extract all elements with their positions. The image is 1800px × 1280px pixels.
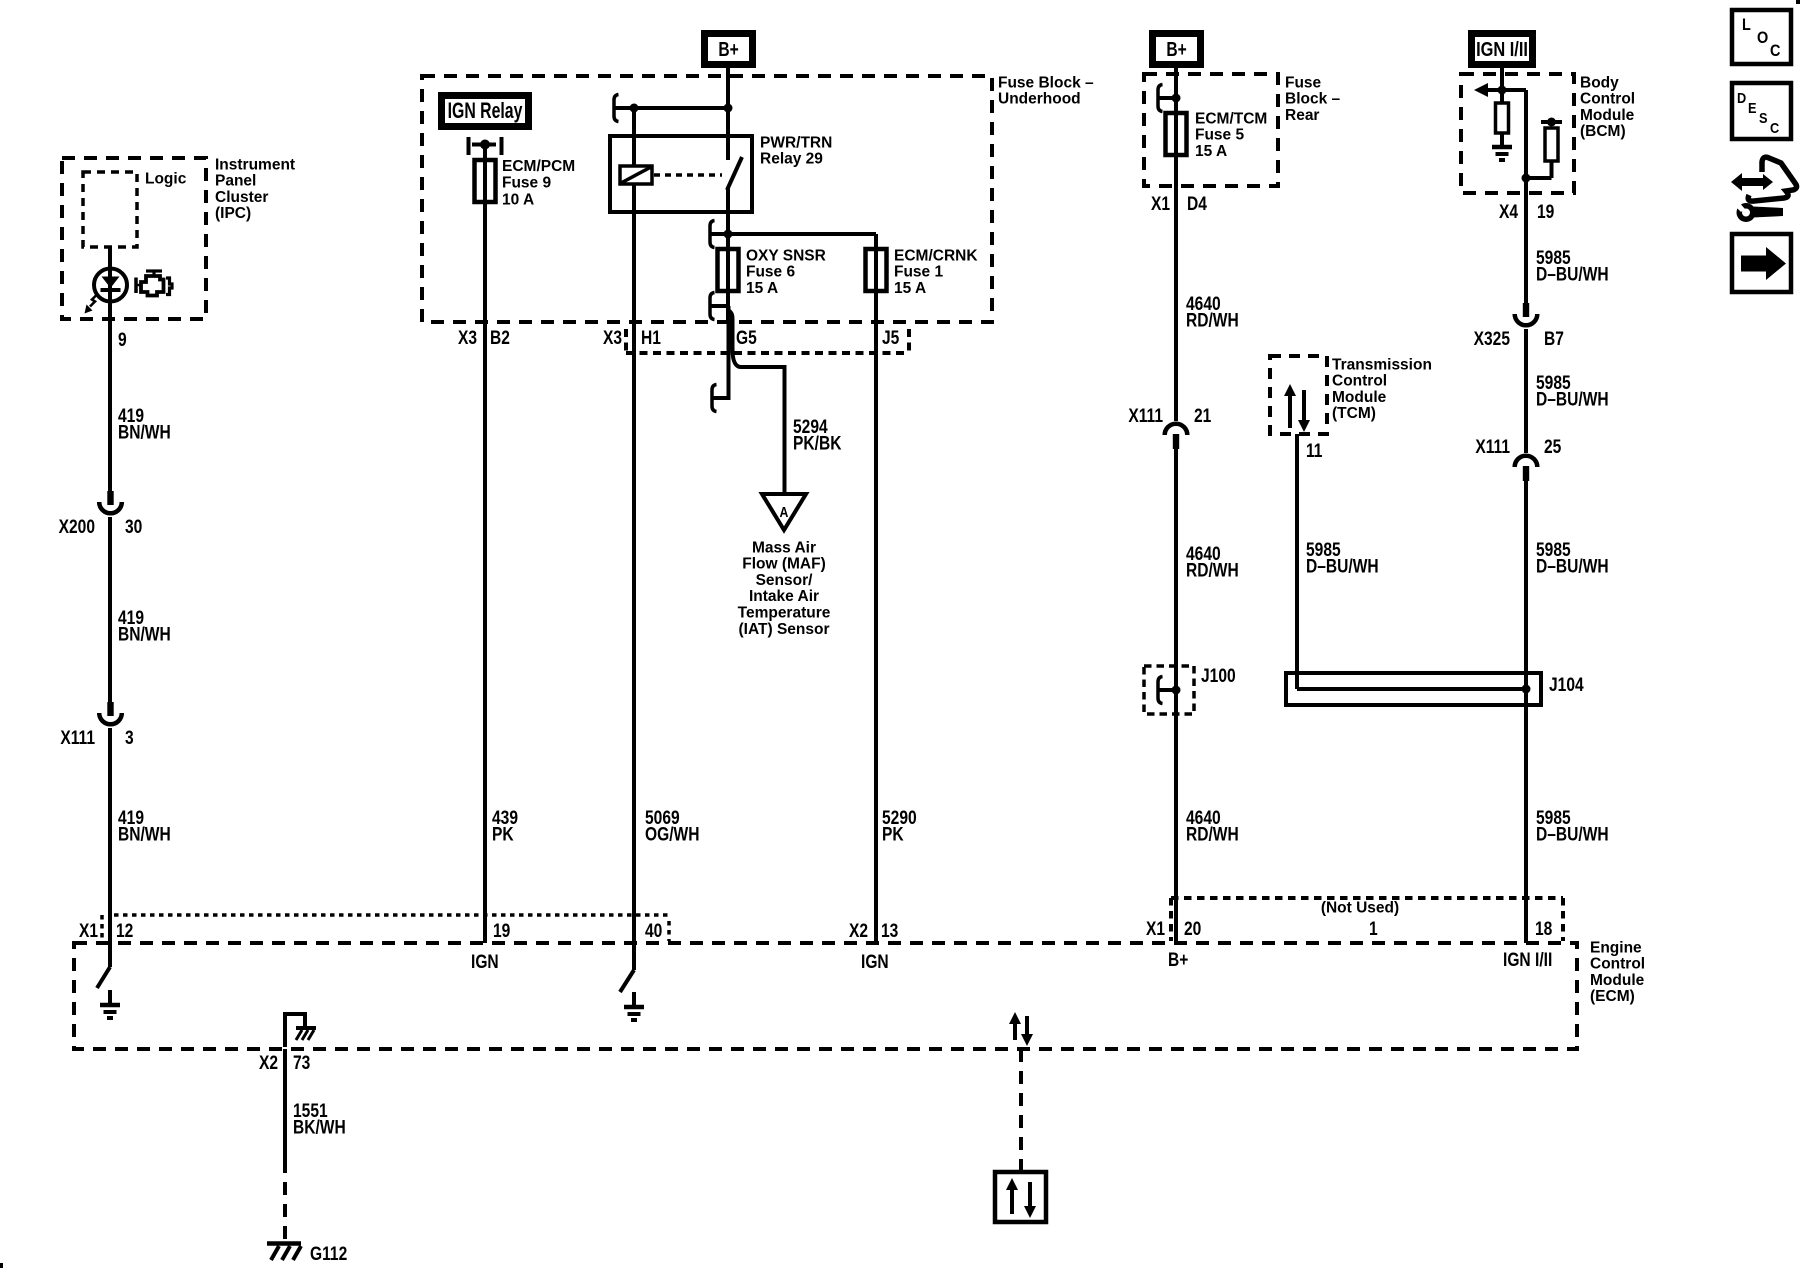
clip tap above fuse 6 — [710, 221, 715, 248]
BCM internal resistor 2 — [1545, 128, 1558, 161]
Fuse Block - Rear dashed box — [1144, 74, 1278, 186]
Transmission Control Module (TCM) dashed box — [1270, 356, 1327, 434]
dashed stub to data link box — [1019, 1049, 1023, 1172]
svg-text:Fuse 6: Fuse 6 — [746, 264, 795, 281]
relay PWR/TRN Relay 29 box — [610, 136, 752, 212]
svg-text:Mass Air: Mass Air — [752, 539, 816, 556]
power symbol B+ (rear) — [1153, 34, 1201, 65]
svg-text:D–BU/WH: D–BU/WH — [1536, 823, 1609, 845]
svg-text:B2: B2 — [490, 327, 510, 349]
svg-text:OG/WH: OG/WH — [645, 823, 699, 845]
svg-text:X2: X2 — [259, 1052, 278, 1074]
wire 5985 D-BU/WH to ECM pin 18 — [1524, 480, 1528, 943]
Body Control Module (BCM) dashed box — [1461, 74, 1574, 193]
wire 419 BN/WH to ECM pin 12 — [108, 728, 112, 967]
svg-text:18: 18 — [1535, 918, 1553, 940]
svg-text:D: D — [1737, 89, 1746, 106]
wire BCM internal vertical — [1524, 90, 1528, 193]
DESC icon box — [1732, 83, 1791, 139]
svg-text:(IAT) Sensor: (IAT) Sensor — [739, 621, 830, 638]
ground at pin 12 — [108, 990, 112, 1005]
svg-text:Sensor/: Sensor/ — [756, 572, 814, 589]
svg-text:BN/WH: BN/WH — [118, 421, 171, 443]
svg-text:PK: PK — [492, 823, 514, 845]
wire 5985 to X111 25 — [1524, 329, 1528, 453]
inline connector X200 pin 30 — [107, 491, 113, 505]
connector bracket X1 left — [100, 915, 104, 941]
junction BCM output — [1522, 174, 1531, 183]
Logic dashed box — [83, 172, 137, 247]
svg-text:IGN I/II: IGN I/II — [1476, 37, 1528, 60]
ECM switch to ground at pin 40 — [620, 970, 634, 992]
svg-text:Block –: Block – — [1285, 91, 1341, 108]
svg-text:(TCM): (TCM) — [1332, 405, 1376, 422]
wrench — [1737, 203, 1756, 222]
svg-text:Panel: Panel — [215, 173, 256, 190]
svg-text:H1: H1 — [641, 327, 661, 349]
svg-text:Cluster: Cluster — [215, 189, 268, 206]
svg-text:ECM/PCM: ECM/PCM — [502, 158, 575, 175]
junction BCM feed — [1498, 86, 1507, 95]
LED diode symbol — [102, 277, 120, 289]
indicator lamp circle (MIL LED) — [94, 269, 127, 302]
svg-text:Intake Air: Intake Air — [749, 588, 819, 605]
ECM data arrows — [1013, 1023, 1017, 1040]
svg-text:Module: Module — [1590, 972, 1645, 989]
fuse 9 holder bracket — [467, 137, 471, 155]
power symbol B+ (underhood) — [705, 34, 753, 65]
svg-text:Fuse Block –: Fuse Block – — [998, 74, 1094, 91]
junction fuse 6 feed — [724, 230, 733, 239]
svg-text:C: C — [1770, 42, 1780, 60]
svg-text:Fuse 9: Fuse 9 — [502, 175, 551, 192]
svg-text:IGN: IGN — [471, 951, 499, 973]
svg-text:BN/WH: BN/WH — [118, 623, 171, 645]
svg-text:X1: X1 — [1151, 193, 1170, 215]
wire fuse feed bus — [710, 232, 876, 236]
svg-text:Temperature: Temperature — [738, 605, 831, 622]
svg-text:Body: Body — [1580, 74, 1619, 91]
wire 5985 to X325 — [1524, 193, 1528, 304]
svg-text:25: 25 — [1544, 436, 1562, 458]
inline connector X111 pin 3 — [107, 702, 113, 716]
svg-text:PWR/TRN: PWR/TRN — [760, 134, 832, 151]
BCM internal resistor 1 — [1496, 103, 1509, 133]
wire dashed to G112 — [283, 1160, 287, 1242]
wire 419 BN/WH to X111 — [108, 517, 112, 703]
inline connector X111 pin 21 — [1165, 424, 1188, 435]
junction J104 — [1522, 685, 1531, 694]
svg-text:X111: X111 — [1475, 436, 1510, 458]
relay coil — [620, 166, 652, 184]
svg-text:B+: B+ — [1168, 949, 1188, 971]
splice J100 dotted box — [1144, 666, 1194, 714]
svg-text:15 A: 15 A — [746, 280, 778, 297]
IGN Relay label box — [442, 96, 529, 127]
svg-text:21: 21 — [1194, 405, 1212, 427]
svg-text:40: 40 — [645, 920, 662, 942]
svg-text:19: 19 — [1537, 201, 1555, 223]
svg-text:Transmission: Transmission — [1332, 356, 1432, 373]
svg-text:X1: X1 — [1146, 918, 1165, 940]
svg-text:Engine: Engine — [1590, 939, 1642, 956]
Fuse Block - Underhood dashed box — [422, 76, 992, 322]
svg-text:B+: B+ — [718, 38, 738, 60]
fuse ECM/CRNK Fuse 1 15A — [866, 249, 887, 291]
svg-text:Fuse: Fuse — [1285, 74, 1322, 91]
svg-text:X4: X4 — [1499, 201, 1518, 223]
connector bus dotted line X1 (left) — [114, 913, 671, 917]
svg-text:X200: X200 — [59, 516, 95, 538]
svg-text:Module: Module — [1580, 107, 1635, 124]
ground in BCM — [1500, 132, 1504, 147]
svg-text:(BCM): (BCM) — [1580, 123, 1626, 140]
wire B+ through fuse 5 to X111 21 — [1174, 68, 1178, 421]
svg-text:S: S — [1759, 109, 1768, 126]
wire 419 BN/WH from Logic to X200 — [108, 247, 112, 492]
wire 5290 PK to ECM pin 13 — [874, 234, 878, 943]
data link connector box — [995, 1172, 1046, 1222]
wire resistor to ground — [1500, 133, 1504, 147]
ECM internal chassis ground at pin 73 — [285, 1014, 305, 1047]
wire IGN I/II into BCM — [1500, 68, 1504, 103]
svg-text:OXY SNSR: OXY SNSR — [746, 247, 826, 264]
wire BCM internal horizontal — [1502, 88, 1526, 92]
wire 1551 BK/WH — [283, 1049, 287, 1160]
relay switch blade — [727, 157, 742, 190]
svg-text:IGN I/II: IGN I/II — [1503, 949, 1552, 971]
svg-text:RD/WH: RD/WH — [1186, 559, 1239, 581]
wire inside J104 — [1297, 687, 1526, 691]
page corner marks — [1796, 0, 1800, 4]
ECM switch to ground at pin 12 — [97, 967, 110, 988]
svg-text:X2: X2 — [849, 920, 868, 942]
wire relay output to G5 — [726, 188, 730, 322]
svg-text:D–BU/WH: D–BU/WH — [1536, 263, 1609, 285]
wire relay coil feed — [614, 106, 728, 110]
svg-text:X111: X111 — [60, 727, 95, 749]
junction resistor 2 top — [1547, 118, 1556, 127]
svg-text:E: E — [1748, 99, 1757, 116]
wire 4640 RD/WH to ECM pin 20 — [1174, 448, 1178, 943]
wire G5 output to open clip — [712, 306, 729, 398]
LOC icon box — [1732, 10, 1791, 64]
svg-text:J104: J104 — [1549, 674, 1584, 696]
connector bracket right of 40 — [667, 921, 671, 941]
svg-text:BK/WH: BK/WH — [293, 1116, 346, 1138]
clip in J100 — [1158, 677, 1163, 704]
wire resistor 2 to main — [1526, 176, 1552, 180]
svg-text:Control: Control — [1332, 373, 1387, 390]
svg-text:B+: B+ — [1166, 38, 1186, 60]
svg-text:G112: G112 — [310, 1243, 347, 1265]
tick below fuse 6 — [710, 304, 728, 308]
svg-text:J100: J100 — [1201, 665, 1236, 687]
TCM arrow up — [1288, 395, 1292, 428]
svg-text:Flow (MAF): Flow (MAF) — [742, 556, 826, 573]
svg-text:15 A: 15 A — [894, 280, 926, 297]
svg-text:RD/WH: RD/WH — [1186, 309, 1239, 331]
svg-text:ECM/TCM: ECM/TCM — [1195, 110, 1267, 127]
fuse ECM/PCM Fuse 9 10A — [475, 160, 496, 202]
junction at fuse 9 — [480, 140, 490, 150]
svg-text:Underhood: Underhood — [998, 91, 1081, 108]
svg-text:J5: J5 — [882, 327, 900, 349]
inline connector X325 pin B7 — [1523, 303, 1529, 317]
wire B+ into relay switch — [726, 68, 730, 160]
(Not Used) dotted box — [1171, 896, 1563, 900]
svg-text:Rear: Rear — [1285, 107, 1319, 124]
svg-text:12: 12 — [116, 920, 133, 942]
svg-text:IGN: IGN — [861, 951, 889, 973]
engine icon (check engine pictogram) — [141, 276, 164, 296]
fuse ECM/TCM Fuse 5 15A — [1166, 113, 1187, 155]
wire 5985 D-BU/WH TCM to J104 — [1295, 434, 1299, 689]
svg-text:C: C — [1770, 119, 1779, 136]
wire 439 PK down to ECM pin 19 — [483, 144, 487, 943]
svg-text:Control: Control — [1590, 956, 1645, 973]
svg-text:30: 30 — [125, 516, 142, 538]
svg-text:A: A — [780, 504, 789, 520]
svg-text:PK: PK — [882, 823, 904, 845]
svg-text:19: 19 — [493, 920, 511, 942]
svg-text:B7: B7 — [1544, 328, 1564, 350]
svg-text:D–BU/WH: D–BU/WH — [1306, 555, 1379, 577]
svg-text:BN/WH: BN/WH — [118, 823, 171, 845]
svg-text:G5: G5 — [736, 327, 757, 349]
svg-text:11: 11 — [1306, 440, 1323, 462]
next page arrow icon box — [1732, 234, 1791, 292]
svg-text:73: 73 — [293, 1052, 311, 1074]
svg-text:Control: Control — [1580, 91, 1635, 108]
ground at pin 40 — [632, 992, 636, 1007]
fuse OXY SNSR Fuse 6 15A — [718, 249, 739, 291]
svg-text:Fuse 1: Fuse 1 — [894, 264, 943, 281]
clip tap at relay feed — [614, 95, 619, 122]
svg-text:PK/BK: PK/BK — [793, 432, 842, 454]
svg-text:X3: X3 — [603, 327, 622, 349]
vehicle hotspot icon — [1748, 157, 1796, 201]
svg-text:ECM/CRNK: ECM/CRNK — [894, 247, 978, 264]
svg-text:X325: X325 — [1474, 328, 1511, 350]
clip below fuse 6 — [710, 293, 715, 320]
open end clip below G5 — [712, 385, 717, 412]
MAF sensor triangle connector A — [762, 494, 806, 530]
BCM arrow to other circuits — [1488, 88, 1502, 92]
inline connector X111 pin 25 — [1515, 456, 1538, 467]
svg-text:Module: Module — [1332, 389, 1387, 406]
ground G112 chassis — [267, 1241, 301, 1246]
junction coil feed — [630, 104, 639, 113]
svg-text:D4: D4 — [1187, 193, 1207, 215]
svg-text:1: 1 — [1369, 918, 1378, 940]
junction J100 — [1172, 686, 1181, 695]
svg-text:15 A: 15 A — [1195, 143, 1227, 160]
svg-text:10 A: 10 A — [502, 191, 534, 208]
wire 5069 OG/WH coil to ECM pin 40 — [632, 108, 636, 970]
svg-text:X111: X111 — [1128, 405, 1163, 427]
svg-text:O: O — [1757, 29, 1768, 47]
dotted connector box H1 G5 J5 — [624, 329, 628, 353]
TCM arrow down — [1302, 390, 1306, 421]
svg-text:(Not Used): (Not Used) — [1321, 899, 1399, 916]
svg-text:20: 20 — [1184, 918, 1201, 940]
Engine Control Module (ECM) dashed box — [74, 943, 1577, 1049]
svg-text:(IPC): (IPC) — [215, 205, 251, 222]
relay linkage dashed — [654, 173, 722, 177]
svg-text:Relay 29: Relay 29 — [760, 151, 823, 168]
svg-text:Logic: Logic — [145, 170, 187, 187]
junction fuse 5 feed — [1172, 94, 1181, 103]
splice pack J104 box — [1286, 673, 1541, 705]
Instrument Panel Cluster (IPC) dashed box — [62, 158, 206, 319]
clip tap fuse 5 — [1158, 85, 1163, 112]
svg-text:D–BU/WH: D–BU/WH — [1536, 555, 1609, 577]
svg-text:D–BU/WH: D–BU/WH — [1536, 388, 1609, 410]
svg-text:13: 13 — [881, 920, 899, 942]
lamp arrow (lightning) — [90, 294, 98, 307]
svg-text:X3: X3 — [458, 327, 477, 349]
power symbol IGN I/II — [1472, 34, 1533, 65]
junction B+ wire — [724, 104, 733, 113]
svg-text:Instrument: Instrument — [215, 156, 295, 173]
wire branch to MAF sensor — [729, 310, 785, 494]
svg-text:L: L — [1742, 16, 1751, 34]
svg-text:9: 9 — [118, 329, 127, 351]
BCM resistor 2 termination bar — [1541, 120, 1562, 124]
svg-text:IGN Relay: IGN Relay — [448, 100, 523, 124]
svg-text:(ECM): (ECM) — [1590, 988, 1635, 1005]
svg-text:3: 3 — [125, 727, 134, 749]
svg-text:X1: X1 — [79, 920, 98, 942]
svg-text:Fuse 5: Fuse 5 — [1195, 127, 1244, 144]
wire resistor 2 down — [1550, 161, 1554, 178]
svg-text:RD/WH: RD/WH — [1186, 823, 1239, 845]
